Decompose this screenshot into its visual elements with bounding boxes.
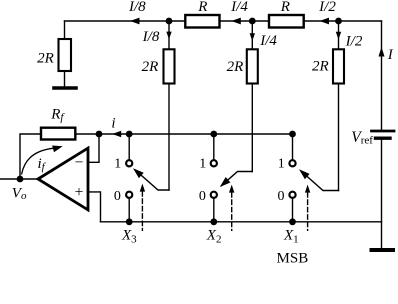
wire top rail middle segment [220, 20, 270, 22]
control dashed line X2 [231, 193, 233, 231]
arrowhead current i summing [112, 131, 121, 137]
wire top rail right segment [304, 20, 382, 22]
wire 2R left bottom stub [64, 71, 66, 87]
switch S1 stub from summing node to contact 1 [292, 134, 294, 160]
resistor 2R branch 1 box [164, 49, 175, 83]
junction top node 3 [335, 18, 342, 25]
wire branch 3 down [338, 21, 340, 49]
junction bottom node X2 [210, 218, 217, 225]
arrowhead control X3 [140, 184, 145, 192]
resistor 2R branch 2 box [247, 49, 258, 83]
arrowhead current I/4 top [231, 18, 241, 25]
switch S2 stub from summing node to contact 1 [213, 134, 215, 160]
junction bottom node X3 [126, 218, 133, 225]
svg-text:2R: 2R [37, 50, 54, 66]
svg-text:1: 1 [199, 156, 206, 171]
svg-text:1: 1 [114, 156, 121, 171]
wire inverting input stub [88, 134, 99, 162]
svg-text:I/4: I/4 [259, 33, 277, 49]
switch S1 contact 0 stub to bottom rail [292, 199, 294, 222]
svg-text:R: R [280, 0, 290, 15]
switch S3 contact 1 [126, 160, 132, 166]
svg-text:2R: 2R [312, 58, 329, 74]
junction summing node S1 [289, 131, 296, 138]
svg-text:I: I [387, 47, 394, 63]
arrowhead switch S2 arm [220, 177, 231, 187]
wire summing line Rf to inverting node [75, 133, 292, 135]
svg-text:I/8: I/8 [128, 0, 146, 15]
resistor R first horizontal box [185, 15, 219, 28]
svg-text:0: 0 [199, 189, 206, 204]
resistor Rf feedback box [41, 128, 75, 140]
svg-text:I/2: I/2 [345, 34, 363, 50]
wire branch 2 down [251, 21, 253, 49]
wire bottom rail [101, 221, 382, 223]
arrowhead current I/2 top [320, 18, 330, 25]
junction bottom node X1 [289, 218, 296, 225]
junction summing node S3 [126, 131, 133, 138]
resistor R second horizontal box [269, 15, 304, 28]
wire left drop to 2R [64, 21, 66, 39]
svg-text:1: 1 [278, 156, 285, 171]
wire right rail down to battery [381, 21, 383, 130]
control dashed line X3 [141, 192, 143, 231]
junction summing node S2 [210, 131, 217, 138]
switch S1 contact 0 [289, 192, 295, 198]
arrowhead current I/2 branch [336, 32, 341, 40]
wire output to left edge [0, 178, 38, 180]
switch S3 contact 0 [126, 192, 132, 198]
svg-text:2R: 2R [227, 59, 244, 75]
ground left bar [54, 86, 76, 90]
junction inverting node [96, 131, 103, 138]
wire branch 1 below box to switch [168, 84, 170, 191]
junction top node 2 [249, 18, 256, 25]
switch S2 contact 0 stub to bottom rail [213, 199, 215, 222]
svg-text:I/2: I/2 [318, 0, 336, 15]
battery Vref plates [372, 130, 395, 133]
svg-text:R: R [197, 0, 207, 15]
curved arrow if feedback [22, 148, 55, 174]
wire battery to ground [381, 140, 383, 251]
svg-text:−: − [75, 154, 84, 171]
arrowhead control X1 [305, 185, 310, 193]
arrowhead current I/4 branch [250, 33, 255, 41]
op-amp U1 triangle [38, 148, 88, 210]
switch S3 stub from summing node to contact 1 [128, 134, 130, 160]
arrowhead switch S1 arm [299, 169, 310, 179]
junction top node 1 [166, 18, 173, 25]
arrowhead control X2 [229, 185, 234, 193]
wire top rail left segment [65, 20, 186, 22]
svg-text:2R: 2R [142, 59, 159, 75]
wire noninverting input stub [88, 192, 101, 222]
switch S1 contact 1 [289, 160, 295, 166]
svg-text:I/8: I/8 [142, 29, 160, 45]
switch S2 arm [222, 172, 253, 186]
svg-text:i: i [111, 115, 115, 131]
arrowhead current I/8 branch [166, 32, 171, 40]
switch S2 contact 0 [211, 192, 217, 198]
wire branch 2 below box to switch [251, 84, 253, 172]
resistor 2R branch 3 box [333, 49, 344, 83]
wire branch 3 below box to switch [338, 84, 340, 191]
svg-text:+: + [75, 184, 84, 201]
wire Vo node up to Rf [20, 134, 41, 179]
switch S3 arm [136, 170, 170, 190]
resistor 2R leftmost vertical box [59, 39, 72, 71]
switch S3 contact 0 stub to bottom rail [128, 199, 130, 222]
wire branch 1 down [168, 21, 170, 49]
svg-text:0: 0 [114, 189, 121, 204]
control dashed line X1 [307, 193, 309, 231]
arrowhead current I/8 top [130, 18, 140, 25]
arrowhead current I right rail [379, 47, 385, 57]
svg-text:I/4: I/4 [230, 0, 248, 15]
switch S2 contact 1 [211, 160, 217, 166]
svg-text:MSB: MSB [277, 251, 309, 267]
arrowhead switch S3 arm [133, 168, 144, 178]
junction Vo node [17, 176, 24, 183]
ground right bar [372, 248, 394, 252]
svg-text:0: 0 [278, 189, 285, 204]
switch S1 arm [302, 172, 339, 191]
arrowhead if feedback [52, 146, 63, 153]
